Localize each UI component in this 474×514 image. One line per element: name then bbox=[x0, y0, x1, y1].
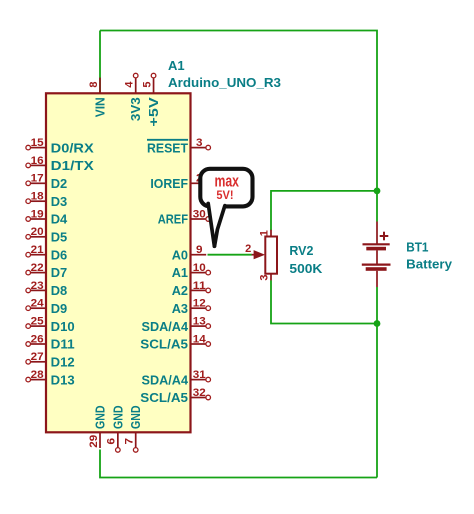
svg-text:D6: D6 bbox=[51, 247, 67, 262]
pin 16 D1/TX bbox=[26, 155, 94, 173]
wire battery minus to bottom rail bbox=[376, 287, 378, 478]
svg-text:D3: D3 bbox=[51, 194, 67, 209]
svg-text:9: 9 bbox=[196, 244, 203, 256]
label RV2 bbox=[289, 243, 313, 258]
svg-text:2: 2 bbox=[245, 243, 251, 255]
pin 4 3V3 bbox=[124, 73, 144, 121]
pin 12 A3 bbox=[172, 298, 211, 316]
pin 28 D13 bbox=[26, 369, 75, 387]
svg-text:500K: 500K bbox=[289, 261, 323, 276]
label BT1 bbox=[406, 239, 428, 254]
label Battery bbox=[406, 257, 453, 272]
svg-text:A1: A1 bbox=[172, 265, 188, 280]
svg-text:25: 25 bbox=[31, 316, 44, 328]
pin 2 IOREF bbox=[150, 173, 210, 191]
svg-text:SDA/A4: SDA/A4 bbox=[142, 319, 189, 334]
pin 24 D9 bbox=[26, 298, 67, 316]
svg-text:24: 24 bbox=[31, 298, 45, 310]
svg-text:GND: GND bbox=[110, 406, 125, 430]
svg-text:5: 5 bbox=[141, 81, 153, 87]
svg-text:D12: D12 bbox=[51, 355, 75, 370]
svg-text:GND: GND bbox=[93, 406, 108, 430]
svg-text:26: 26 bbox=[31, 333, 44, 345]
svg-text:VIN: VIN bbox=[93, 97, 108, 117]
svg-text:D2: D2 bbox=[51, 176, 67, 191]
pin 26 D11 bbox=[26, 333, 75, 351]
svg-text:D10: D10 bbox=[51, 319, 75, 334]
pin 5 +5V bbox=[141, 73, 161, 126]
pin 3 RESET bbox=[147, 137, 211, 155]
svg-text:D7: D7 bbox=[51, 265, 67, 280]
svg-text:RV2: RV2 bbox=[289, 243, 313, 258]
svg-text:3: 3 bbox=[259, 275, 271, 281]
svg-text:+5V: +5V bbox=[146, 97, 161, 127]
svg-text:30: 30 bbox=[193, 208, 206, 220]
svg-text:Battery: Battery bbox=[406, 257, 453, 272]
pin 25 D10 bbox=[26, 316, 75, 334]
junction node top rail bbox=[374, 188, 381, 195]
pin 13 SDA/A4 bbox=[142, 316, 211, 334]
svg-text:15: 15 bbox=[31, 137, 44, 149]
svg-text:D5: D5 bbox=[51, 230, 67, 245]
pin 8 VIN bbox=[88, 78, 108, 118]
label 500K bbox=[289, 261, 323, 276]
svg-text:D0/RX: D0/RX bbox=[51, 140, 94, 155]
svg-text:D9: D9 bbox=[51, 301, 67, 316]
svg-text:17: 17 bbox=[31, 173, 44, 185]
svg-text:19: 19 bbox=[31, 208, 44, 220]
svg-text:AREF: AREF bbox=[158, 212, 188, 227]
pin 27 D12 bbox=[26, 351, 75, 369]
svg-text:SCL/A5: SCL/A5 bbox=[140, 337, 188, 352]
junction node bottom rail bbox=[374, 320, 381, 327]
reference A1 bbox=[168, 58, 185, 73]
pin 2 RV2 bbox=[245, 243, 251, 255]
svg-text:SCL/A5: SCL/A5 bbox=[140, 390, 188, 405]
svg-text:SDA/A4: SDA/A4 bbox=[142, 372, 189, 387]
svg-text:20: 20 bbox=[31, 226, 44, 238]
pin 6 GND bbox=[106, 406, 126, 453]
svg-text:A3: A3 bbox=[172, 301, 188, 316]
svg-text:3V3: 3V3 bbox=[128, 97, 143, 121]
pin 20 D5 bbox=[26, 226, 67, 244]
wire top rail bbox=[100, 31, 377, 222]
svg-text:14: 14 bbox=[193, 333, 207, 345]
callout text 5V! bbox=[216, 188, 233, 202]
pin 18 D3 bbox=[26, 191, 67, 209]
pin 1 RV2 bbox=[259, 230, 271, 236]
svg-text:6: 6 bbox=[106, 438, 118, 445]
pin 17 D2 bbox=[26, 173, 67, 191]
battery BT1 symbol bbox=[362, 222, 391, 288]
potentiometer RV2 body bbox=[252, 230, 277, 281]
svg-text:D1/TX: D1/TX bbox=[51, 158, 94, 173]
pin 19 D4 bbox=[26, 208, 68, 226]
wire A0 to RV2 wiper bbox=[208, 254, 252, 256]
pin 15 D0/RX bbox=[26, 137, 94, 155]
svg-text:A0: A0 bbox=[172, 247, 188, 262]
svg-text:12: 12 bbox=[193, 298, 206, 310]
pin 29 GND bbox=[88, 406, 108, 449]
svg-text:7: 7 bbox=[124, 438, 136, 445]
pin 9 A0 bbox=[172, 244, 207, 262]
pin 31 SDA/A4 bbox=[142, 369, 211, 387]
IC A1 Arduino_UNO_R3 body bbox=[46, 93, 191, 432]
svg-text:3: 3 bbox=[196, 137, 203, 149]
svg-text:1: 1 bbox=[259, 230, 271, 236]
callout text max bbox=[214, 172, 239, 190]
pin 11 A2 bbox=[172, 280, 211, 298]
svg-text:32: 32 bbox=[193, 387, 206, 399]
pin 10 A1 bbox=[172, 262, 211, 280]
svg-text:29: 29 bbox=[88, 435, 100, 448]
callout bubble max 5V bbox=[200, 169, 252, 246]
pin 21 D6 bbox=[26, 244, 67, 262]
svg-text:18: 18 bbox=[31, 191, 44, 203]
wire bottom rail bbox=[100, 450, 377, 478]
svg-text:27: 27 bbox=[31, 351, 44, 363]
svg-text:31: 31 bbox=[193, 369, 206, 381]
value Arduino_UNO_R3 bbox=[168, 75, 281, 90]
svg-text:10: 10 bbox=[193, 262, 206, 274]
svg-text:RESET: RESET bbox=[147, 140, 188, 155]
svg-text:IOREF: IOREF bbox=[150, 176, 188, 191]
pin 14 SCL/A5 bbox=[140, 333, 210, 351]
svg-text:D8: D8 bbox=[51, 283, 67, 298]
pin 23 D8 bbox=[26, 280, 67, 298]
svg-text:A2: A2 bbox=[172, 283, 188, 298]
svg-text:5V!: 5V! bbox=[216, 188, 233, 202]
svg-text:22: 22 bbox=[31, 262, 44, 274]
pin 7 GND bbox=[124, 406, 144, 453]
pin 30 AREF bbox=[158, 208, 211, 226]
wire RV2 pin3 to rail bbox=[271, 280, 377, 323]
svg-text:13: 13 bbox=[193, 316, 206, 328]
svg-text:21: 21 bbox=[31, 244, 44, 256]
svg-text:A1: A1 bbox=[168, 58, 185, 73]
svg-text:Arduino_UNO_R3: Arduino_UNO_R3 bbox=[168, 75, 281, 90]
svg-text:D11: D11 bbox=[51, 337, 75, 352]
svg-text:GND: GND bbox=[128, 406, 143, 430]
svg-text:D13: D13 bbox=[51, 372, 75, 387]
svg-text:D4: D4 bbox=[51, 212, 68, 227]
svg-text:16: 16 bbox=[31, 155, 44, 167]
svg-text:23: 23 bbox=[31, 280, 44, 292]
svg-text:4: 4 bbox=[124, 81, 136, 88]
pin 3 RV2 bbox=[259, 275, 271, 281]
svg-text:8: 8 bbox=[88, 81, 100, 87]
wire VIN to top rail bbox=[99, 31, 101, 94]
svg-text:28: 28 bbox=[31, 369, 44, 381]
pin 22 D7 bbox=[26, 262, 67, 280]
wire RV2 pin1 to rail bbox=[271, 191, 377, 230]
svg-text:BT1: BT1 bbox=[406, 239, 428, 254]
pin 32 SCL/A5 bbox=[140, 387, 210, 405]
svg-text:11: 11 bbox=[193, 280, 206, 292]
